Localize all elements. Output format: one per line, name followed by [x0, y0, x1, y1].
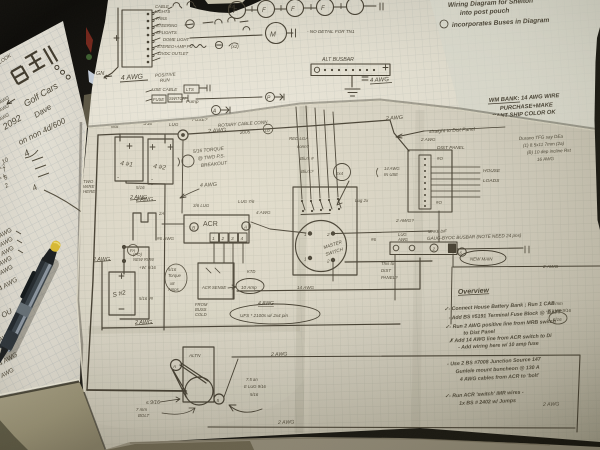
- bright left edge of sheet C: [77, 128, 86, 392]
- sheet C labels top-left: [83, 117, 270, 203]
- wire down right x390: [390, 120, 409, 151]
- 4AWG arrow: [180, 189, 199, 198]
- big oval 2100s: [230, 304, 320, 324]
- glint blue: [95, 88, 99, 92]
- fuse block terminal dots: [147, 14, 150, 62]
- feeder wire: [104, 8, 118, 78]
- S2 outer loop: [120, 247, 149, 319]
- left big loop vertical: [87, 135, 98, 390]
- doodle blocks top of notepad: [9, 43, 71, 102]
- wire from switch bottom: [332, 262, 334, 281]
- shadow of C edge falling on B: [78, 122, 82, 380]
- metal band: [16, 302, 33, 318]
- battery bottoms link: [126, 181, 165, 184]
- wire y262: [345, 261, 432, 262]
- sheet A+E paper (top sheets with fuse diagram and notes): [88, 0, 600, 131]
- C overview notes: [440, 287, 567, 407]
- (x2) note: [229, 43, 238, 46]
- grip darker: [0, 329, 19, 351]
- C middle: ACR area: [102, 106, 432, 330]
- alternator box: [183, 347, 214, 402]
- mid horizontal long wire: [102, 324, 400, 328]
- darker corner of olive sheet: [0, 418, 30, 450]
- wire battery tops to node: [98, 134, 178, 141]
- wires from ACR terminals down: [214, 242, 243, 299]
- 10 amp oval: [236, 279, 264, 294]
- sheet D olive paper bottom-left: [0, 381, 106, 450]
- lamp F2: [258, 1, 275, 18]
- shadow above sheet C top edge (on sheet A): [88, 100, 600, 130]
- circled A row3: [186, 20, 194, 28]
- alt busbar box: [311, 64, 390, 76]
- upper cone: [41, 247, 59, 265]
- wire into switch from left: [251, 222, 306, 233]
- circle minus row7: [215, 41, 222, 48]
- pen body: [0, 257, 54, 353]
- ground symbol: [345, 89, 360, 96]
- series links: [246, 4, 376, 12]
- curved arrow: [229, 405, 262, 412]
- dark table strip along bottom: [104, 437, 600, 450]
- 14AWG long wire: [237, 258, 420, 291]
- lower busbar: [390, 242, 457, 255]
- switch terminals: [308, 232, 312, 236]
- C bottom: alternator: [160, 347, 262, 414]
- node +: [114, 36, 119, 41]
- master switch outer box: [293, 187, 357, 275]
- wire from switch right: [335, 231, 432, 234]
- ACR box: [184, 215, 249, 243]
- right vertical + bottom loop: [232, 355, 580, 432]
- junction node circle: [178, 130, 188, 140]
- verticals from top to comb: [296, 106, 338, 199]
- comb bus: [301, 214, 330, 215]
- belt: [172, 363, 209, 397]
- house loads lines: [431, 167, 480, 197]
- row5 dome light wire to M: [190, 35, 262, 38]
- small circle 5: [214, 394, 224, 404]
- circled A squiggle: [182, 155, 194, 167]
- (2x4) leader arrow: [337, 181, 349, 205]
- pen shadow: [0, 255, 61, 362]
- dist panel outer: [408, 150, 452, 212]
- glint green: [86, 54, 92, 60]
- glint red pen in background: [86, 27, 93, 53]
- bright flash zone lower-left of C: [10, 290, 310, 430]
- lighting overlays: [0, 0, 1, 1]
- wire from 5 to loop: [224, 359, 238, 397]
- 4 AWG POSITIVE RUN: [104, 71, 177, 83]
- battery box 2: [148, 139, 173, 184]
- ground stem: [351, 76, 353, 87]
- sheet B paper (left notepad): [0, 21, 87, 398]
- dist panel inner strip: [419, 155, 431, 209]
- shadow along C/D boundary: [84, 392, 106, 450]
- wire below panel: [438, 211, 440, 242]
- row wires: [168, 7, 172, 9]
- writing tip: [0, 347, 9, 364]
- wire row3 to lamps: [185, 22, 213, 25]
- comb of disconnect switches: [302, 199, 341, 210]
- big pulley: [185, 377, 213, 405]
- wire node to right (2 AWG run): [188, 120, 390, 134]
- lamp row3: [215, 17, 248, 24]
- yellow top: [49, 239, 62, 253]
- top edge bright rim of sheet C: [88, 101, 600, 131]
- ACR sense box: [198, 263, 234, 299]
- small arrow under doodles: [7, 99, 15, 104]
- sheet C paper (main front diagram sheet): [10, 100, 600, 450]
- straight-to arrow: [396, 131, 424, 138]
- slightly grayer right part (sheet E): [430, 0, 600, 131]
- motor M: [266, 23, 287, 44]
- corner tip of back sheet above wedge: [205, 0, 245, 4]
- long vertical from batteries: [164, 184, 165, 330]
- clip: [20, 270, 37, 299]
- wires below busbar: [394, 255, 396, 300]
- row7 squiggle resistor: [190, 45, 206, 48]
- S2 inner box: [109, 272, 135, 315]
- master switch big circle: [296, 221, 347, 272]
- lamp F4: [317, 0, 334, 16]
- equals 4AWG: [362, 77, 368, 80]
- new main oval: [460, 251, 506, 266]
- shadowed paper sliver at gap bottom: [82, 93, 95, 128]
- arrows to pulley: [160, 397, 180, 402]
- lamp F5 partial: [347, 0, 364, 15]
- glint bright: [88, 70, 98, 87]
- body shading: [0, 257, 47, 349]
- castellated connector: [133, 213, 156, 240]
- dark wedge gap between top sheets: [190, 0, 262, 13]
- battery + marks: [127, 144, 173, 150]
- strong shadow line under B bottom edge: [0, 382, 79, 398]
- dark sliver along right edge: [595, 27, 600, 230]
- lamp symbols row1: [173, 2, 196, 8]
- fuse block F1: [122, 10, 152, 67]
- ACR circles B and A: [190, 223, 198, 231]
- lower rows on sheet A: use cable / fuse switch pump: [146, 85, 284, 115]
- lamp F1: [229, 2, 246, 19]
- creases on sheet C: [299, 106, 304, 433]
- battery box 1: [115, 137, 143, 181]
- lamp row5: [243, 27, 250, 30]
- sheet A small text labels: [96, 4, 239, 77]
- ACR terminal squares: [210, 233, 219, 242]
- C right: dist panel and busbars: [87, 127, 600, 432]
- small pulley A: [171, 360, 182, 371]
- switch rows: [152, 10, 160, 61]
- lamp F3: [287, 0, 304, 17]
